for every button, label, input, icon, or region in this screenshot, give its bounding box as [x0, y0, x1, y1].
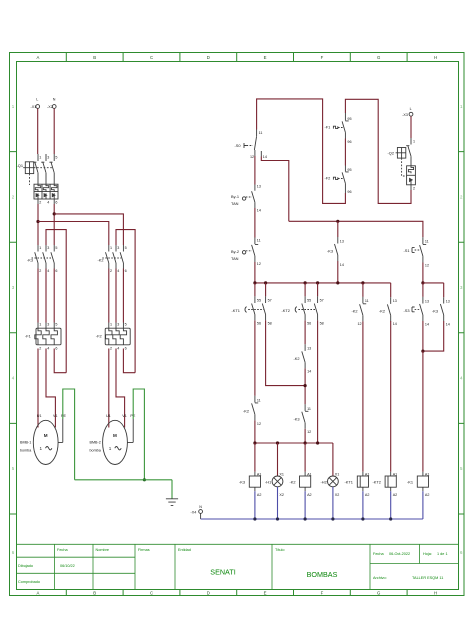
overload F1: [25, 323, 61, 351]
svg-text:13: 13: [425, 299, 429, 303]
node row line to K3 aux: [336, 220, 339, 223]
svg-text:96: 96: [347, 140, 351, 144]
svg-text:TAN: TAN: [231, 256, 239, 261]
contactor K3 power poles: [27, 245, 57, 273]
node N bus lamp H1: [276, 517, 279, 520]
svg-text:06-Oct-2022: 06-Oct-2022: [389, 552, 410, 556]
svg-text:11: 11: [425, 240, 429, 244]
svg-text:A: A: [36, 590, 39, 595]
svg-text:5: 5: [55, 155, 57, 159]
svg-text:SENATI: SENATI: [210, 568, 235, 577]
svg-text:3: 3: [47, 246, 49, 250]
node KT1-58 join: [304, 384, 307, 387]
svg-text:6: 6: [125, 346, 127, 350]
svg-text:C: C: [150, 590, 153, 595]
svg-text:13: 13: [307, 347, 311, 351]
svg-text:95: 95: [347, 117, 351, 121]
coil KT1 timer: [345, 472, 370, 497]
frame column ticks top: [66, 53, 407, 62]
svg-text:5: 5: [125, 323, 127, 327]
svg-text:13: 13: [257, 185, 261, 189]
node PE junction: [143, 478, 146, 481]
bus3 control: [255, 443, 333, 476]
frame row ticks left: [10, 152, 17, 514]
wire S0-12 to By-1: [254, 156, 256, 185]
wire K3NC to bus3: [304, 429, 306, 443]
node bus3 coil K2: [304, 441, 307, 444]
coil K3: [239, 472, 261, 497]
svg-text:57: 57: [268, 299, 272, 303]
svg-text:1: 1: [39, 246, 41, 250]
svg-text:4: 4: [117, 346, 119, 350]
svg-text:B: B: [93, 590, 96, 595]
overload contact F2 95-96: [325, 166, 352, 194]
contact K2 NC interlock: [243, 396, 261, 426]
svg-text:A2: A2: [257, 493, 262, 497]
svg-text:1: 1: [109, 446, 112, 451]
svg-text:14: 14: [257, 209, 261, 213]
svg-text:-S0: -S0: [235, 143, 242, 148]
svg-text:12: 12: [257, 262, 261, 266]
svg-text:bomba: bomba: [90, 449, 102, 453]
svg-text:-K3: -K3: [294, 416, 300, 421]
wire coil KT1 to N: [362, 491, 364, 519]
svg-text:1: 1: [110, 246, 112, 250]
svg-text:14: 14: [307, 369, 311, 373]
svg-text:Firmas: Firmas: [138, 548, 150, 552]
svg-text:6: 6: [55, 201, 57, 205]
svg-text:A2: A2: [425, 493, 430, 497]
svg-text:56: 56: [257, 321, 261, 325]
wire KT2-56 down: [304, 320, 306, 344]
svg-text:X1: X1: [279, 472, 284, 476]
svg-text:4: 4: [47, 201, 49, 205]
node bus1 K3-aux: [336, 281, 339, 284]
svg-text:11: 11: [257, 399, 261, 403]
svg-text:D: D: [207, 55, 210, 60]
motor BMB-1 bomba: [20, 414, 66, 464]
pushbutton S3 NO start: [404, 283, 430, 327]
svg-text:1: 1: [40, 446, 43, 451]
svg-text:06/10/22: 06/10/22: [60, 564, 75, 568]
wire bypass to F2 pin6: [123, 349, 135, 373]
node bus1 K2-NC: [361, 281, 364, 284]
wire bypass to F1 pin6: [54, 349, 66, 373]
svg-text:PE: PE: [61, 414, 66, 418]
svg-text:L: L: [36, 98, 38, 102]
svg-text:-H1: -H1: [265, 480, 271, 485]
svg-text:-F2: -F2: [325, 176, 331, 181]
svg-text:Nombre: Nombre: [96, 548, 110, 552]
svg-text:12: 12: [307, 430, 311, 434]
svg-text:A2: A2: [307, 493, 312, 497]
wire By-2 to bus1: [254, 262, 256, 283]
wire F1 pin2 to motor1 U1: [37, 349, 39, 428]
wire N branch to K2 pin5: [54, 214, 123, 245]
svg-text:57: 57: [320, 299, 324, 303]
svg-text:By-1: By-1: [231, 194, 239, 199]
svg-text:-K2: -K2: [352, 308, 358, 313]
svg-text:11: 11: [257, 239, 261, 243]
frame row numbers right: [460, 104, 463, 555]
svg-text:12: 12: [257, 422, 261, 426]
svg-text:-KT2: -KT2: [373, 480, 381, 485]
svg-text:BMB-2: BMB-2: [90, 441, 101, 445]
svg-text:C: C: [150, 55, 153, 60]
coil K1: [407, 472, 429, 497]
motor BMB-2 bomba: [90, 414, 136, 464]
svg-text:L: L: [410, 107, 412, 111]
node L branch: [36, 220, 39, 223]
wire N feed: [53, 109, 55, 155]
node N bus coil K2: [304, 517, 307, 520]
svg-text:-Q1: -Q1: [17, 163, 24, 168]
pushbutton S1 NC stop: [404, 237, 430, 267]
wire KT1-58 elbow: [266, 320, 306, 385]
svg-text:X2: X2: [335, 493, 340, 497]
ground: [166, 499, 178, 506]
svg-text:-K3: -K3: [239, 480, 245, 485]
svg-text:58: 58: [320, 321, 324, 325]
svg-text:B: B: [93, 55, 96, 60]
wire K2NC to coil KT1: [362, 321, 364, 471]
terminal -X1 L: [31, 98, 40, 109]
svg-text:-Q2: -Q2: [388, 151, 395, 156]
node bus3 lamp H1: [276, 441, 279, 444]
svg-text:-S3: -S3: [404, 308, 410, 313]
svg-text:U1: U1: [37, 414, 42, 418]
wire bracket K2 pin3 to bypass: [116, 230, 135, 373]
contact K3 aux holding NO: [432, 297, 450, 326]
wire PE motor1 green: [63, 389, 75, 480]
wire bus3 to coil K3: [254, 443, 256, 472]
svg-text:V1: V1: [122, 414, 127, 418]
wire lamp H1 to N: [277, 487, 279, 519]
wire PE bus green to earth: [75, 480, 172, 499]
svg-text:2: 2: [39, 346, 41, 350]
svg-text:X2: X2: [279, 493, 284, 497]
node bus3 coil K3: [253, 441, 256, 444]
svg-text:12: 12: [425, 263, 429, 267]
wire F2 pin2 to motor2 U1: [108, 349, 110, 428]
svg-text:96: 96: [347, 190, 351, 194]
contactor K2 power poles: [98, 245, 127, 273]
svg-text:95: 95: [347, 168, 351, 172]
svg-text:N: N: [199, 505, 202, 509]
svg-text:-K2: -K2: [379, 308, 385, 313]
svg-text:55: 55: [257, 299, 261, 303]
svg-text:1 de 1: 1 de 1: [437, 552, 448, 556]
svg-text:Comprobado: Comprobado: [18, 580, 40, 584]
svg-text:11: 11: [365, 299, 369, 303]
svg-text:-KT1: -KT1: [232, 308, 240, 313]
frame column letters bottom: [36, 590, 437, 595]
node bus1 KT2-55: [304, 281, 307, 284]
svg-text:3: 3: [117, 323, 119, 327]
terminal -X3 L control: [402, 107, 413, 117]
svg-text:-K2: -K2: [294, 356, 300, 361]
svg-text:12: 12: [250, 155, 254, 159]
svg-text:2: 2: [110, 346, 112, 350]
svg-text:3: 3: [47, 323, 49, 327]
wire F1 pin4 to motor1 V1: [46, 349, 55, 428]
node bus1 KT1-57: [264, 281, 267, 284]
svg-text:58: 58: [268, 321, 272, 325]
svg-text:5: 5: [125, 246, 127, 250]
svg-text:F: F: [321, 590, 324, 595]
wire S2/K3 holding join: [423, 321, 444, 351]
svg-text:1: 1: [110, 323, 112, 327]
contact K2 NO aux: [379, 297, 397, 326]
wire coil KT2 to N: [390, 491, 392, 519]
svg-text:4: 4: [47, 269, 49, 273]
svg-text:-F1: -F1: [325, 125, 331, 130]
svg-text:A: A: [36, 55, 39, 60]
wire By-1 to By-2: [254, 208, 256, 238]
wire K2NO to coil KT2: [390, 321, 392, 472]
svg-text:2: 2: [413, 186, 415, 190]
contact K2 NC aux: [352, 283, 369, 326]
svg-text:A2: A2: [393, 493, 398, 497]
svg-text:By-2: By-2: [231, 249, 239, 254]
svg-text:TALLER ESQM 11: TALLER ESQM 11: [412, 576, 443, 580]
lamp H1: [265, 472, 284, 497]
wire bracket K3 pin3 to bypass: [46, 230, 66, 373]
wire bus3 to coil K2: [304, 443, 306, 472]
svg-text:6: 6: [55, 346, 57, 350]
bus1 control: [255, 283, 391, 297]
svg-text:-K2: -K2: [243, 408, 249, 413]
svg-text:13: 13: [393, 299, 397, 303]
svg-text:bomba: bomba: [20, 449, 32, 453]
svg-text:2: 2: [110, 269, 112, 273]
svg-text:V1: V1: [53, 414, 58, 418]
wire F1-F2 link: [344, 139, 346, 166]
wires K3 to F1: [38, 269, 54, 323]
timer contact KT1 55-58: [232, 283, 272, 326]
node S1 bus2: [421, 281, 424, 284]
svg-text:E: E: [264, 55, 267, 60]
svg-text:13: 13: [446, 299, 450, 303]
svg-text:6: 6: [125, 269, 127, 273]
bus2 to K3 holding: [423, 283, 444, 297]
contact K3 NC interlock: [294, 404, 312, 434]
node bus1 KT1-55: [253, 281, 256, 284]
svg-text:Fecha: Fecha: [57, 548, 68, 552]
svg-text:4: 4: [117, 269, 119, 273]
frame row numbers left: [12, 104, 15, 555]
svg-text:-F1: -F1: [25, 334, 31, 339]
svg-text:-X1: -X1: [31, 105, 37, 109]
node N bus coil K3: [253, 517, 256, 520]
svg-text:14: 14: [446, 322, 450, 326]
svg-text:U1: U1: [106, 414, 111, 418]
svg-text:Fecha: Fecha: [373, 552, 384, 556]
svg-text:2: 2: [39, 269, 41, 273]
svg-text:BMB-1: BMB-1: [20, 441, 31, 445]
svg-text:-K2: -K2: [290, 480, 296, 485]
title block grid: [17, 544, 459, 589]
svg-text:Archivo:: Archivo:: [373, 576, 387, 580]
wire control loop1 top: [257, 99, 346, 203]
svg-text:-K3: -K3: [327, 248, 333, 253]
svg-text:Entidad: Entidad: [178, 548, 191, 552]
wire K2NC to bus3 left: [254, 420, 256, 443]
svg-text:-H2: -H2: [321, 480, 327, 485]
wire lamp H2 to N: [332, 487, 334, 519]
wire control loop2 top: [345, 99, 411, 203]
coil K2: [290, 472, 312, 497]
frame column letters top: [36, 55, 437, 60]
node N bus lamp H2: [331, 517, 334, 520]
terminal -X2 N: [47, 98, 56, 109]
svg-text:13: 13: [340, 239, 344, 243]
wires K2 to F2: [109, 269, 124, 323]
node bus1 KT2-57: [316, 281, 319, 284]
terminal -X4 N: [191, 505, 203, 519]
svg-text:M: M: [44, 433, 48, 438]
wire Q1 pin2 to K3 pin1 with branch: [37, 204, 39, 245]
wire L branch to K2 pin1: [38, 222, 109, 246]
wire coil K2 to N: [304, 491, 306, 519]
frame inner border: [17, 62, 459, 590]
svg-text:-F2: -F2: [96, 334, 102, 339]
svg-text:14: 14: [263, 155, 267, 159]
coil KT2 timer: [373, 472, 398, 497]
svg-text:14: 14: [340, 263, 344, 267]
wire PE motor2 green: [133, 389, 144, 480]
wire bus3 to lamp H1: [277, 443, 279, 476]
svg-text:M: M: [113, 433, 117, 438]
svg-text:12: 12: [358, 322, 362, 326]
contact K3 aux NO: [327, 221, 344, 283]
svg-text:-X3: -X3: [402, 113, 408, 117]
svg-text:-K3: -K3: [432, 308, 438, 313]
svg-text:3: 3: [47, 155, 49, 159]
svg-text:6: 6: [55, 269, 57, 273]
wire K2NO mid to node: [304, 368, 306, 404]
wire S0-14 to row line: [261, 157, 289, 222]
wire F2 pin4 to motor2 V1: [116, 349, 125, 428]
wire row line S0-14 to S1: [289, 221, 423, 237]
wire KT2-58 down to bus3: [317, 320, 319, 443]
lamp H2: [321, 472, 340, 497]
svg-text:56: 56: [307, 321, 311, 325]
float switch By-2 NC: [231, 238, 261, 266]
wire Q1 pin6 to K3 pin5: [53, 204, 55, 245]
svg-text:D: D: [207, 590, 210, 595]
svg-text:TAN: TAN: [231, 201, 239, 206]
svg-text:-S1: -S1: [404, 248, 410, 253]
svg-text:5: 5: [55, 323, 57, 327]
svg-text:1: 1: [413, 140, 415, 144]
svg-text:-K1: -K1: [407, 480, 413, 485]
timer contact KT2 55-58: [282, 283, 324, 326]
svg-text:A2: A2: [365, 493, 370, 497]
overload F2: [96, 323, 130, 351]
svg-text:E: E: [264, 590, 267, 595]
svg-text:X1: X1: [335, 472, 340, 476]
switch S0 changeover: [235, 130, 267, 159]
svg-text:3: 3: [117, 246, 119, 250]
svg-text:14: 14: [393, 322, 397, 326]
svg-text:-KT1: -KT1: [345, 480, 353, 485]
wire L feed: [37, 109, 39, 155]
svg-text:Hoja:: Hoja:: [423, 552, 432, 556]
wire coil K1 to N: [422, 491, 424, 519]
contact K2 NO mid: [294, 344, 312, 373]
svg-text:14: 14: [425, 322, 429, 326]
svg-text:-KT2: -KT2: [282, 308, 290, 313]
node N bus coil KT2: [389, 517, 392, 520]
wire S1 to node: [422, 263, 424, 283]
wire KT1-56 down: [254, 320, 256, 395]
node N branch: [53, 212, 56, 215]
svg-text:H: H: [434, 55, 437, 60]
node S2 join: [421, 350, 424, 353]
svg-text:4: 4: [47, 346, 49, 350]
svg-text:11: 11: [259, 131, 263, 135]
frame column ticks bottom: [66, 590, 407, 596]
overload contact F1 95-96: [325, 113, 352, 144]
svg-text:11: 11: [307, 407, 311, 411]
svg-text:N: N: [53, 98, 56, 102]
breaker Q1: [17, 154, 59, 205]
svg-text:2: 2: [39, 201, 41, 205]
svg-text:Dibujado: Dibujado: [18, 564, 33, 568]
node bus3 KT2-58: [316, 441, 319, 444]
wire coil K3 to N: [254, 491, 256, 519]
node N bus coil KT1: [361, 517, 364, 520]
breaker Q2: [388, 138, 416, 190]
svg-text:BOMBAS: BOMBAS: [307, 570, 338, 579]
svg-text:F: F: [321, 55, 324, 60]
svg-text:5: 5: [55, 246, 57, 250]
svg-text:Título: Título: [275, 548, 285, 552]
wire to coil K1: [422, 351, 424, 472]
float switch By-1 NO: [231, 185, 261, 213]
svg-text:1: 1: [39, 323, 41, 327]
svg-text:-X2: -X2: [47, 105, 53, 109]
svg-text:H: H: [434, 590, 437, 595]
svg-text:1: 1: [39, 155, 41, 159]
wire N bus blue: [201, 518, 423, 520]
wire X3 to Q2: [410, 116, 412, 138]
svg-text:-X4: -X4: [191, 510, 197, 514]
svg-text:55: 55: [307, 299, 311, 303]
frame row ticks right: [459, 152, 465, 514]
